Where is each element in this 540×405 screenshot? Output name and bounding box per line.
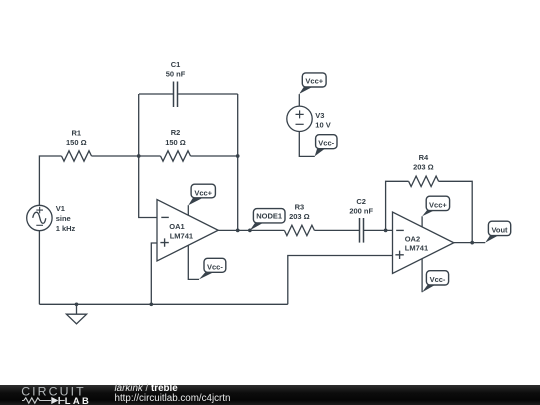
- net flag Vcc- at V3: [315, 135, 337, 157]
- svg-text:200 nF: 200 nF: [349, 207, 373, 216]
- junction R1-R2-C1: [137, 154, 141, 158]
- junction ground rail: [75, 302, 79, 306]
- wire OA1 plus input: [151, 243, 157, 304]
- capacitor C2: [360, 218, 364, 243]
- label OA2: [405, 234, 428, 252]
- wire top feedback right segment: [178, 93, 238, 95]
- CircuitLab logo: [0, 385, 110, 405]
- wire OA1 output: [218, 229, 284, 231]
- label C1 value: [166, 60, 186, 79]
- net flag Vcc+ at OA2: [422, 196, 450, 216]
- svg-text:Vcc+: Vcc+: [194, 188, 212, 197]
- svg-text:203 Ω: 203 Ω: [289, 212, 310, 221]
- wire V1 bottom to ground rail: [38, 231, 40, 305]
- label flag Vcc- OA2: [430, 275, 446, 284]
- resistor R3: [284, 225, 314, 235]
- junction NODE1 anchor: [248, 229, 252, 233]
- svg-text:Vcc+: Vcc+: [429, 200, 447, 209]
- junction C2-OA2-R4: [384, 229, 388, 233]
- svg-text:10 V: 10 V: [315, 120, 330, 129]
- capacitor C1: [174, 82, 178, 108]
- wire V1 top to R1: [39, 156, 61, 205]
- wire R3 to C2: [314, 229, 359, 231]
- svg-text:OA2: OA2: [405, 234, 420, 243]
- svg-text:C1: C1: [171, 60, 181, 69]
- net flag Vcc+ at V3: [299, 73, 326, 94]
- svg-text:Vout: Vout: [491, 225, 508, 234]
- wire feedback up to R4 left: [386, 181, 409, 230]
- net flag Vcc- at OA1: [199, 258, 226, 279]
- svg-text:Vcc-: Vcc-: [430, 275, 446, 284]
- label R3 value: [289, 203, 310, 222]
- label flag Vcc- V3: [318, 139, 334, 148]
- wire bottom rail: [39, 303, 287, 305]
- wire OA1 Vcc- stem: [188, 245, 199, 279]
- junction R2-C1-feedback: [236, 154, 240, 158]
- label flag NODE1: [256, 212, 282, 221]
- wire OA2 Vcc+ stem: [421, 216, 423, 226]
- label flag Vcc- OA1: [207, 262, 223, 271]
- wire OA2 Vcc- stem: [421, 259, 423, 293]
- svg-text:R4: R4: [419, 153, 429, 162]
- voltage source V1: [27, 205, 52, 230]
- svg-text:LM741: LM741: [170, 231, 193, 240]
- resistor R1: [62, 151, 92, 161]
- svg-text:V1: V1: [56, 204, 65, 213]
- svg-text:V3: V3: [315, 111, 324, 120]
- label flag Vout: [491, 225, 508, 234]
- wire left vertical of C1 loop down to OA1 minus: [139, 94, 157, 218]
- svg-text:LM741: LM741: [405, 244, 428, 253]
- wire OA2 plus input to bottom rail: [288, 256, 393, 305]
- label V3 value: [315, 111, 330, 129]
- footer title text: [115, 384, 231, 404]
- junction OA2 output R4: [470, 241, 474, 245]
- net flag Vcc- at OA2: [422, 271, 449, 293]
- wire R4 right down to output: [439, 181, 473, 242]
- label R1 value: [66, 128, 87, 147]
- svg-text:LAB: LAB: [65, 395, 91, 405]
- svg-text:sine: sine: [56, 214, 71, 223]
- svg-text:Vcc-: Vcc-: [318, 139, 334, 148]
- net flag Vout: [485, 221, 510, 242]
- svg-text:Vcc-: Vcc-: [207, 262, 223, 271]
- svg-text:150 Ω: 150 Ω: [66, 138, 87, 147]
- op-amp OA1: [157, 200, 218, 262]
- svg-text:NODE1: NODE1: [256, 212, 282, 221]
- label R2 value: [165, 128, 186, 147]
- wire junction to R2: [139, 155, 161, 157]
- ground: [66, 304, 86, 324]
- net flag Vcc+ at OA1: [188, 184, 215, 205]
- op-amp OA2: [393, 212, 454, 274]
- wire right vertical of C1 loop down to OA1 output: [237, 94, 239, 230]
- wire C2 to OA2 minus: [364, 229, 393, 231]
- voltage source V3: [287, 106, 312, 131]
- svg-text:203 Ω: 203 Ω: [413, 163, 434, 172]
- svg-text:150 Ω: 150 Ω: [165, 138, 186, 147]
- wire OA2 output to Vout: [454, 242, 485, 244]
- label C2 value: [349, 197, 373, 215]
- net flag NODE1: [250, 209, 285, 231]
- wire R2 right to junction: [191, 155, 238, 157]
- wire top feedback left segment: [139, 93, 173, 95]
- svg-text:1 kHz: 1 kHz: [56, 224, 76, 233]
- svg-text:R3: R3: [295, 203, 305, 212]
- wire R1 right to junction: [92, 155, 139, 157]
- svg-text:50 nF: 50 nF: [166, 70, 186, 79]
- wire V3 top stem: [298, 94, 300, 106]
- label flag Vcc+ OA1: [194, 188, 212, 197]
- label V1 value: [56, 204, 76, 233]
- svg-text:R2: R2: [171, 128, 181, 137]
- junction OA1 output feedback: [236, 229, 240, 233]
- resistor R2: [161, 151, 191, 161]
- junction OA1 plus rail: [149, 302, 153, 306]
- wire OA1 Vcc+ stem: [187, 205, 189, 215]
- label flag Vcc+ OA2: [429, 200, 447, 209]
- svg-text:Vcc+: Vcc+: [305, 76, 323, 85]
- wire V3 bottom stem to Vcc- anchor: [299, 132, 315, 157]
- label flag Vcc+ V3: [305, 76, 323, 85]
- label OA1: [169, 222, 193, 240]
- svg-text:C2: C2: [356, 197, 366, 206]
- svg-text:OA1: OA1: [169, 222, 184, 231]
- resistor R4: [409, 176, 439, 186]
- label R4 value: [413, 153, 434, 172]
- svg-text:R1: R1: [72, 128, 82, 137]
